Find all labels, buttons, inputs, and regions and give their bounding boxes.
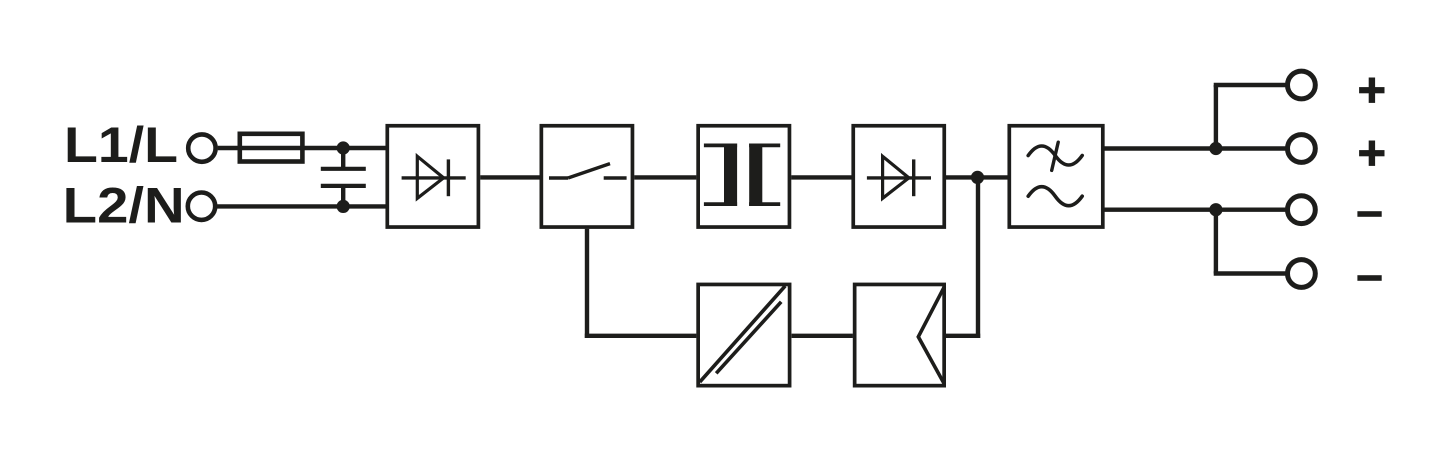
svg-text:L2/N: L2/N <box>63 178 185 234</box>
svg-text:L1/L: L1/L <box>64 117 178 173</box>
